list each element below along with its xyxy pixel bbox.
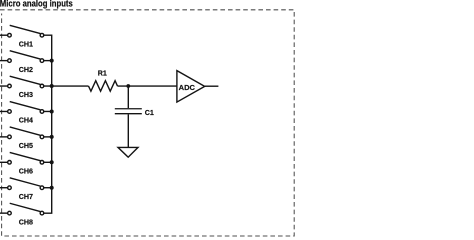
junction dot bus CH6: [50, 160, 54, 164]
resistor R1: [89, 81, 118, 92]
switch arm: [10, 25, 41, 33]
ground symbol: [118, 147, 138, 157]
terminal circle left: [8, 135, 12, 139]
switch arm: [10, 102, 41, 110]
dashed enclosure border: [0, 10, 294, 236]
terminal circle left: [8, 186, 12, 190]
terminal circle left: [8, 211, 12, 215]
capacitor C1: [115, 109, 142, 114]
svg-text:CH3: CH3: [19, 91, 33, 99]
terminal circle left: [8, 161, 12, 165]
wire: right terminal to bus: [44, 60, 52, 62]
wire: right terminal to bus: [44, 187, 52, 189]
terminal circle left: [8, 59, 12, 63]
terminal circle right: [40, 59, 44, 63]
wire: border stub to left terminal: [0, 212, 8, 214]
wire: R1 to ADC input: [118, 85, 177, 87]
switch arm: [10, 51, 41, 59]
svg-text:CH4: CH4: [19, 117, 33, 125]
switch CH6: [0, 152, 52, 175]
wire: C1 to ground: [127, 114, 129, 147]
switch arm: [10, 127, 41, 135]
wire: junction down to C1: [127, 86, 129, 108]
terminal circle left: [8, 84, 12, 88]
svg-text:R1: R1: [98, 69, 107, 77]
svg-text:CH8: CH8: [19, 218, 33, 226]
wire: border stub to left terminal: [0, 187, 8, 189]
terminal circle right: [40, 110, 44, 114]
wire: bus to resistor R1: [52, 85, 89, 87]
op-amp ADC U1: [177, 71, 205, 103]
wire: border stub to left terminal: [0, 136, 8, 138]
switch CH8: [0, 203, 44, 226]
svg-text:C1: C1: [145, 109, 154, 117]
switch arm: [10, 152, 41, 160]
switch CH3: [0, 76, 52, 99]
switch arm: [10, 76, 41, 84]
wire: ADC output: [205, 85, 219, 87]
svg-text:Micro analog inputs: Micro analog inputs: [0, 0, 73, 9]
switch CH2: [0, 51, 52, 74]
terminal circle right: [40, 84, 44, 88]
junction dot bus CH2: [50, 59, 54, 63]
terminal circle right: [40, 33, 44, 37]
switch arm: [10, 203, 41, 211]
wire: border stub to left terminal: [0, 60, 8, 62]
switch CH5: [0, 127, 52, 150]
switch arm: [10, 178, 41, 186]
svg-text:ADC: ADC: [179, 83, 196, 92]
svg-text:CH5: CH5: [19, 142, 33, 150]
terminal circle left: [8, 33, 12, 37]
svg-text:CH1: CH1: [19, 40, 33, 48]
junction dot node at C1 tap: [126, 84, 130, 88]
svg-text:CH2: CH2: [19, 66, 33, 74]
switch CH4: [0, 102, 52, 125]
junction dot bus CH5: [50, 135, 54, 139]
wire: right terminal to bus: [44, 85, 52, 87]
svg-text:CH6: CH6: [19, 168, 33, 176]
wire: border stub to left terminal: [0, 110, 8, 112]
junction dot bus CH4: [50, 109, 54, 113]
terminal circle right: [40, 211, 44, 215]
wire: border stub to left terminal: [0, 161, 8, 163]
switch CH7: [0, 178, 52, 201]
terminal circle right: [40, 135, 44, 139]
terminal circle left: [8, 110, 12, 114]
wire: vertical input bus with top and bottom corners: [44, 35, 52, 213]
wire: right terminal to bus: [44, 161, 52, 163]
wire: right terminal to bus: [44, 110, 52, 112]
junction dot bus CH3: [50, 84, 54, 88]
wire: border stub to left terminal: [0, 85, 8, 87]
svg-text:CH7: CH7: [19, 193, 33, 201]
terminal circle right: [40, 161, 44, 165]
switch CH1: [0, 25, 44, 48]
terminal circle right: [40, 186, 44, 190]
wire: right terminal to bus: [44, 136, 52, 138]
junction dot bus CH7: [50, 186, 54, 190]
wire: border stub to left terminal: [0, 34, 8, 36]
